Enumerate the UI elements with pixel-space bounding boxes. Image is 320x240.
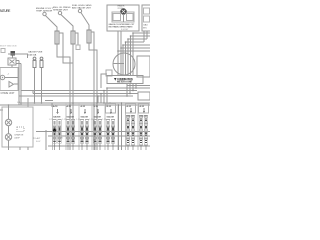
switch column SW7 <box>139 104 149 151</box>
wire stubs <box>16 60 19 62</box>
diode box D1 <box>8 58 16 65</box>
wire hatch leg <box>129 84 131 94</box>
switch column SW2 <box>62 105 75 150</box>
svg-text:LAMP: LAMP <box>14 136 20 139</box>
wire <box>72 44 74 150</box>
small circle bottom <box>53 129 57 133</box>
svg-text:10A 15A: 10A 15A <box>28 53 37 56</box>
wire bracket <box>91 32 94 150</box>
fuse F1 <box>33 57 36 60</box>
battery component left <box>11 51 16 56</box>
wire left of hatch <box>101 74 107 88</box>
wire legs U1 <box>117 31 119 76</box>
box bottom right <box>138 92 150 100</box>
wire right stub <box>135 84 137 86</box>
switch column SW6 <box>126 104 136 151</box>
lamp socket <box>0 75 4 79</box>
svg-text:RATURE: RATURE <box>0 9 10 13</box>
indicator box bottom-left <box>2 107 33 147</box>
wire long bus <box>21 90 137 92</box>
switch column SW3 <box>76 105 89 150</box>
svg-text:TO ALT: TO ALT <box>33 137 41 140</box>
junction dots <box>117 32 134 52</box>
wire <box>46 16 58 31</box>
gauge circle G1 <box>113 53 135 75</box>
svg-text:BODY GND W-B: BODY GND W-B <box>0 46 17 48</box>
svg-text:INS: INS <box>143 28 147 30</box>
wire bracket <box>59 33 73 63</box>
switch column SW7 <box>139 105 147 150</box>
wire gap verticals <box>118 105 120 150</box>
svg-text:CHIME UNIT: CHIME UNIT <box>1 92 15 95</box>
svg-text:GAUGE FUSE: GAUGE FUSE <box>28 51 43 54</box>
relay box U1 <box>107 5 139 31</box>
wire <box>33 93 138 95</box>
resistor body S2 <box>71 31 75 44</box>
fuse F2 <box>40 57 43 60</box>
hatch box tab <box>106 70 112 76</box>
box right tall <box>137 56 150 77</box>
svg-text:GAUGE: GAUGE <box>94 115 102 118</box>
rail wires left <box>18 61 20 106</box>
switch column SW1 <box>49 105 62 150</box>
dashed label box <box>17 127 24 132</box>
small circle bottom <box>53 129 57 133</box>
switch column SW3 <box>80 105 88 150</box>
wire <box>61 15 73 31</box>
switch column SW4 <box>89 105 102 150</box>
resistor body S3 <box>87 30 91 43</box>
svg-text:GAUGE: GAUGE <box>53 115 61 118</box>
wire <box>89 43 97 150</box>
wire <box>107 87 150 89</box>
svg-text:GAU: GAU <box>143 23 148 26</box>
bus wires <box>20 102 150 104</box>
wire hatch leg <box>132 84 134 91</box>
svg-text:J/B: J/B <box>17 102 21 104</box>
junction dots on bus <box>8 102 111 106</box>
inner box U1 <box>112 12 134 22</box>
svg-text:GAUGE: GAUGE <box>67 115 75 118</box>
switch column SW5 <box>102 104 115 151</box>
resistor body S1 <box>55 31 59 44</box>
switch column SW1 <box>53 105 61 150</box>
terminal box S2 <box>76 45 80 50</box>
motor M1 <box>121 9 126 14</box>
bottom bus wires <box>36 131 150 133</box>
wire <box>57 44 70 150</box>
buzzer symbol <box>9 82 14 88</box>
wire bracket <box>75 33 78 45</box>
wire inside gauge <box>113 63 124 65</box>
svg-text:8-14 DET: 8-14 DET <box>121 29 129 31</box>
connector circle S1 <box>43 12 46 15</box>
connector circle S3 <box>78 9 81 12</box>
switch column SW4 <box>93 105 101 150</box>
connector circle S2 <box>58 11 61 14</box>
svg-text:GAUGE CLUSTER FEED CKT: GAUGE CLUSTER FEED CKT <box>109 23 136 26</box>
bottom section separators <box>53 103 139 150</box>
hatch box <box>107 76 143 84</box>
svg-text:INST PANEL WIRING HARN: INST PANEL WIRING HARN <box>109 26 133 29</box>
svg-text:CHARGE: CHARGE <box>14 133 24 136</box>
svg-text:GAUGE: GAUGE <box>107 115 115 118</box>
lamp L1 <box>5 119 11 125</box>
wire <box>81 13 89 30</box>
wire tick above bus <box>45 100 53 102</box>
control box left <box>0 68 18 91</box>
switch column SW2 <box>66 105 74 150</box>
switch column SW5 <box>106 104 116 151</box>
switch column SW6 <box>126 105 134 150</box>
svg-text:METER A UNIT: METER A UNIT <box>117 81 133 84</box>
wire staircase right <box>133 33 150 76</box>
lamp L2 <box>5 134 11 140</box>
svg-text:GAUGE: GAUGE <box>81 115 89 118</box>
wire legs U2 <box>143 31 145 42</box>
junction dots below hatch <box>97 87 137 97</box>
svg-text:AND GAUGE UNIT: AND GAUGE UNIT <box>72 7 92 10</box>
wire hatch leg <box>135 86 137 89</box>
relay box U2 <box>142 5 152 31</box>
wire long bus <box>19 95 133 97</box>
